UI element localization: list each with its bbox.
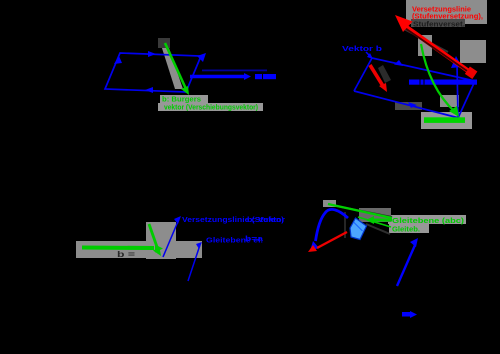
svg-text:Gleiteb.: Gleiteb. [392, 224, 420, 233]
svg-text:b =: b = [117, 250, 136, 259]
svg-text:b=a: b=a [245, 236, 263, 243]
svg-text:Vektor b: Vektor b [342, 46, 382, 53]
svg-text:b: Vektor: b: Vektor [247, 217, 285, 224]
svg-text:(Stufenversetzung),: (Stufenversetzung), [412, 13, 483, 20]
svg-text:vektor (Verschiebungsvektor): vektor (Verschiebungsvektor) [164, 103, 258, 112]
svg-text:Stufenverset.: Stufenverset. [413, 22, 465, 29]
